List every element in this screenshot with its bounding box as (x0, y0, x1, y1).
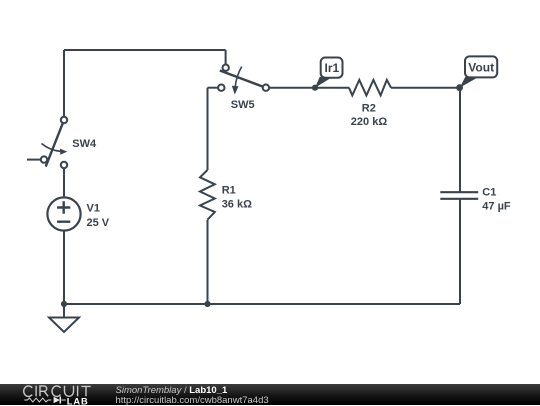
svg-text:SW5: SW5 (231, 99, 255, 111)
node junction dot at R1 bottom (204, 301, 210, 307)
ground (49, 318, 79, 333)
wire top horizontal from left rail to SW5 (64, 49, 226, 51)
flag Ir1 pointer (315, 77, 331, 88)
footer bar (0, 384, 540, 405)
wire SW5 right throw to R2 left lead (through Ir1 node) (269, 87, 349, 89)
svg-text:SW4: SW4 (72, 138, 97, 150)
wire middle rail down to R1 top (207, 88, 209, 170)
wire Vout node down to C1 top plate (459, 88, 461, 193)
svg-text:V1: V1 (87, 203, 100, 215)
wire bottom bus from ground junction to C1 branch (64, 303, 460, 305)
svg-text:Ir1: Ir1 (325, 61, 340, 75)
svg-text:C1: C1 (482, 186, 496, 198)
svg-text:220 kΩ: 220 kΩ (351, 116, 388, 128)
node Ir1 junction dot (312, 85, 318, 91)
svg-text:R2: R2 (362, 102, 376, 114)
wire V1 bottom to ground junction (63, 230, 65, 304)
wire R1 bottom to bottom bus (207, 220, 209, 304)
wire left rail from top-left corner down to SW4 top terminal (63, 50, 65, 117)
svg-text:25 V: 25 V (87, 217, 110, 229)
capacitor C1 (440, 192, 478, 199)
flag Vout box (465, 56, 497, 77)
wire ground stub (63, 304, 65, 317)
flag Ir1 box (321, 58, 343, 78)
switch SW5 (218, 65, 269, 95)
svg-text:R1: R1 (222, 185, 236, 197)
switch SW4 (41, 117, 67, 168)
wire drop from top wire to SW5 common terminal (225, 50, 227, 64)
node Vout junction dot (456, 84, 463, 91)
resistor R1 (200, 170, 215, 220)
flag Vout pointer (460, 77, 477, 88)
svg-text:Vout: Vout (468, 61, 494, 75)
footer author/title (116, 385, 228, 396)
wire SW4 bottom terminal to V1 top (63, 168, 65, 197)
svg-text:47 µF: 47 µF (482, 200, 511, 212)
node junction dot at ground bus left (61, 301, 67, 307)
wire SW5 left throw stub horizontal (208, 87, 218, 89)
voltage source V1 (47, 197, 80, 230)
wire C1 bottom plate down to bottom bus (459, 199, 461, 304)
footer url (116, 395, 269, 406)
resistor R2 (349, 80, 391, 96)
wire R2 right lead to Vout node (391, 87, 460, 89)
logo CircuitLab (0, 384, 110, 405)
svg-text:36 kΩ: 36 kΩ (222, 199, 252, 211)
wire SW4 left throw stub (27, 159, 41, 161)
